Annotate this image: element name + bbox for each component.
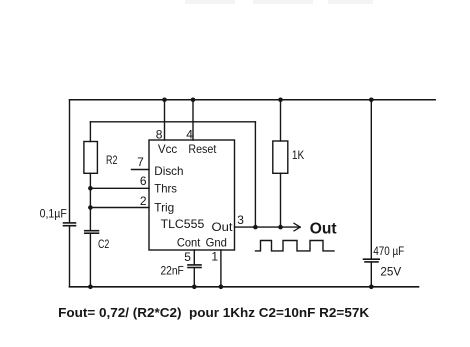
svg-text:2: 2: [140, 194, 147, 208]
svg-text:Out: Out: [310, 221, 337, 238]
resistor R2: [84, 142, 98, 174]
wire 470uF bottom lead: [370, 262, 372, 287]
node junction 470uF to ground rail: [369, 285, 374, 290]
capacitor 22nF: [188, 265, 201, 268]
wire left branch upper (0,1uF top lead): [69, 100, 71, 222]
node junction Thrs tap: [88, 186, 93, 191]
decorative faint scan remnant top: [185, 0, 373, 4]
svg-text:1: 1: [211, 249, 218, 263]
wire Vcc pin 8: [164, 100, 166, 140]
node junction pin4 to Vcc rail: [191, 98, 196, 103]
node junction Trig tap: [88, 205, 93, 210]
svg-text:Thrs: Thrs: [154, 182, 177, 196]
svg-text:25V: 25V: [380, 265, 401, 279]
svg-text:4: 4: [186, 127, 193, 141]
wire feedback net vertical (down to Out line): [254, 122, 256, 227]
waveform square wave symbol: [256, 241, 335, 251]
node junction C2 to ground rail: [88, 285, 93, 290]
svg-text:6: 6: [140, 174, 147, 188]
svg-text:Vcc: Vcc: [158, 142, 177, 156]
node junction 22nF to ground rail: [192, 285, 197, 290]
node junction 470uF to Vcc rail: [369, 98, 374, 103]
node junction pin8 to Vcc rail: [162, 98, 167, 103]
node junction 1K to Out: [278, 225, 283, 230]
node junction feedback to Out: [253, 225, 258, 230]
svg-text:8: 8: [156, 127, 163, 141]
svg-text:Reset: Reset: [188, 142, 216, 156]
wire Reset pin 4: [192, 100, 194, 140]
wire 470uF top lead: [370, 100, 372, 259]
svg-text:470 µF: 470 µF: [373, 244, 404, 258]
svg-text:7: 7: [137, 155, 144, 169]
wire 1K top lead: [280, 100, 282, 141]
wire Out (pin 3): [235, 226, 300, 228]
wire Trig (pin 2): [90, 207, 149, 209]
svg-text:0,1µF: 0,1µF: [40, 206, 67, 220]
svg-text:C2: C2: [98, 237, 110, 251]
svg-text:1K: 1K: [292, 148, 304, 162]
wire Cont pin 5 lower lead: [193, 268, 195, 287]
wire Vcc top rail: [70, 99, 436, 101]
wire Cont pin 5 upper lead: [193, 250, 195, 265]
svg-text:R2: R2: [106, 153, 118, 167]
node junction 1K to Vcc rail: [278, 98, 283, 103]
svg-text:3: 3: [237, 213, 244, 227]
svg-text:Disch: Disch: [154, 164, 183, 178]
wire R2 top lead: [89, 122, 91, 142]
svg-text:Out: Out: [212, 220, 234, 234]
node junction pin1 to ground rail: [219, 285, 224, 290]
svg-text:Gnd: Gnd: [206, 236, 227, 250]
wire Gnd pin 1: [220, 250, 222, 287]
wire R2 bottom to C2: [89, 173, 91, 230]
wire left branch lower (0,1uF bottom lead): [69, 227, 71, 287]
arrow Out: [294, 223, 300, 231]
wire Thrs (pin 6): [90, 187, 149, 189]
wire 1K bottom lead: [280, 173, 282, 227]
op-amp U1 TLC555 body: [149, 140, 235, 250]
wire C2 bottom lead: [89, 233, 91, 287]
svg-text:5: 5: [184, 250, 191, 264]
wire ground bottom rail: [70, 286, 419, 288]
svg-text:Cont: Cont: [177, 236, 201, 250]
wire Disch stub (pin 7): [132, 169, 150, 171]
resistor R 1K: [273, 141, 288, 173]
svg-text:Fout= 0,72/ (R2*C2) pour 1Khz: Fout= 0,72/ (R2*C2) pour 1Khz C2=10nF R2…: [58, 306, 369, 320]
capacitor 470uF 25V: [364, 259, 380, 262]
svg-text:TLC555: TLC555: [161, 217, 205, 231]
wire feedback net horizontal (R2 top to Out column): [90, 121, 255, 123]
svg-text:Trig: Trig: [154, 201, 174, 215]
svg-text:22nF: 22nF: [161, 264, 184, 278]
capacitor 0,1uF: [64, 223, 76, 226]
capacitor C2: [85, 231, 99, 234]
